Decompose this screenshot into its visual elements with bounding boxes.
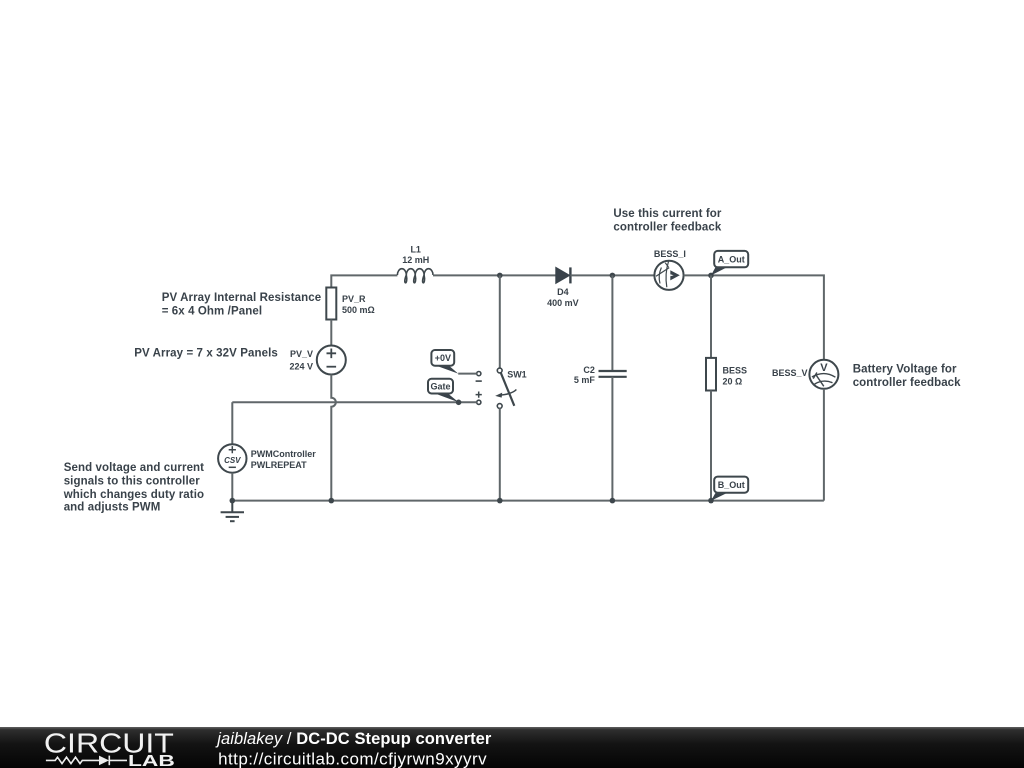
svg-text:224 V: 224 V xyxy=(289,362,313,372)
svg-text:SW1: SW1 xyxy=(507,370,527,380)
switch SW1 xyxy=(476,368,517,408)
flag Gate xyxy=(428,379,459,403)
svg-text:Use this current for: Use this current for xyxy=(613,208,722,220)
gate minus terminal xyxy=(477,372,481,376)
svg-text:= 6x 4 Ohm /Panel: = 6x 4 Ohm /Panel xyxy=(162,306,262,318)
wire: switch branch top xyxy=(499,275,501,368)
wire: diode to ammeter xyxy=(570,274,654,276)
resistor PV_R xyxy=(326,288,336,320)
junction bottom rail at switch branch xyxy=(497,498,503,504)
wire: CSV top to gate rail xyxy=(231,402,233,444)
junction bottom rail at ground xyxy=(230,498,236,504)
svg-text:Send voltage and current: Send voltage and current xyxy=(64,462,204,474)
svg-text:PV_V: PV_V xyxy=(290,349,313,359)
wire: +0V to switch minus terminal xyxy=(458,373,477,375)
svg-text:Gate: Gate xyxy=(430,381,450,391)
wire: PV_R to PV_V xyxy=(330,320,332,346)
footer bar xyxy=(0,727,1024,768)
wire: BESS branch bottom xyxy=(710,391,712,501)
ground xyxy=(221,501,244,522)
svg-text:PWLREPEAT: PWLREPEAT xyxy=(251,460,307,470)
diode D4 xyxy=(556,267,571,283)
svg-text:controller feedback: controller feedback xyxy=(853,377,961,389)
wire: voltmeter to bottom rail xyxy=(823,389,825,501)
wire: PV_V down with hop over gate rail xyxy=(331,375,336,501)
wire: BESS branch top xyxy=(710,275,712,358)
svg-text:+0V: +0V xyxy=(435,353,451,363)
svg-text:B_Out: B_Out xyxy=(718,480,745,490)
svg-text:Battery Voltage for: Battery Voltage for xyxy=(853,364,957,376)
capacitor C2 xyxy=(599,371,627,377)
svg-text:PV_R: PV_R xyxy=(342,294,366,304)
junction bottom rail at capacitor branch xyxy=(610,498,616,504)
wire: PV_R top corner to inductor xyxy=(331,275,397,287)
flag +0V xyxy=(431,350,458,374)
svg-text:which changes duty ratio: which changes duty ratio xyxy=(63,489,204,501)
junction bottom rail at B_Out node xyxy=(708,498,714,504)
junction bottom rail at PV_V branch xyxy=(329,498,335,504)
junction at Gate anchor xyxy=(456,400,462,406)
gate plus terminal xyxy=(477,400,481,404)
svg-text:C2: C2 xyxy=(583,365,595,375)
svg-text:http://circuitlab.com/cfjyrwn9: http://circuitlab.com/cfjyrwn9xyyrv xyxy=(218,749,487,768)
svg-text:V: V xyxy=(820,362,828,374)
wire: ammeter to right corner down to voltmeter xyxy=(684,275,824,360)
svg-text:and adjusts PWM: and adjusts PWM xyxy=(64,502,161,514)
svg-text:signals to this controller: signals to this controller xyxy=(64,475,201,487)
inductor L1 xyxy=(397,269,433,283)
svg-text:BESS_V: BESS_V xyxy=(772,368,808,378)
resistor BESS xyxy=(706,358,716,391)
svg-text:500 mΩ: 500 mΩ xyxy=(342,305,375,315)
svg-text:LAB: LAB xyxy=(128,753,175,768)
svg-text:L1: L1 xyxy=(410,245,421,255)
wire: bottom rail xyxy=(232,500,824,502)
wire: inductor to diode xyxy=(433,274,556,276)
svg-text:jaiblakey / DC-DC Stepup conve: jaiblakey / DC-DC Stepup converter xyxy=(215,730,492,748)
source PWMController CSV xyxy=(218,444,246,472)
wire: gate rail from CSV to switch plus terminal xyxy=(232,401,476,403)
wire: CSV bottom to rail xyxy=(231,473,233,501)
junction at switch top node xyxy=(497,273,503,279)
wire: capacitor branch top xyxy=(611,275,613,371)
svg-text:PWMController: PWMController xyxy=(251,449,316,459)
svg-text:CSV: CSV xyxy=(224,456,241,465)
svg-text:BESS_I: BESS_I xyxy=(654,249,686,259)
voltmeter BESS_V xyxy=(809,360,838,389)
svg-text:400 mV: 400 mV xyxy=(547,298,579,308)
svg-text:PV Array = 7 x 32V Panels: PV Array = 7 x 32V Panels xyxy=(134,347,278,359)
svg-text:A_Out: A_Out xyxy=(718,255,745,265)
junction at capacitor top node xyxy=(610,273,616,279)
svg-text:20 Ω: 20 Ω xyxy=(723,376,743,386)
svg-text:controller feedback: controller feedback xyxy=(613,222,721,234)
flag B_Out xyxy=(711,477,748,501)
wire: switch branch bottom xyxy=(499,408,501,500)
svg-text:PV Array Internal Resistance: PV Array Internal Resistance xyxy=(162,292,322,304)
junction at A_Out node xyxy=(708,273,714,279)
flag A_Out xyxy=(711,251,748,276)
wire: capacitor branch bottom xyxy=(611,377,613,501)
svg-text:12 mH: 12 mH xyxy=(402,255,429,265)
source PV_V xyxy=(317,346,346,375)
svg-text:BESS: BESS xyxy=(723,365,748,375)
logo zigzag resistor and diode xyxy=(46,756,127,766)
ammeter BESS_I xyxy=(654,261,683,290)
svg-text:5 mF: 5 mF xyxy=(574,375,596,385)
svg-text:D4: D4 xyxy=(557,287,569,297)
